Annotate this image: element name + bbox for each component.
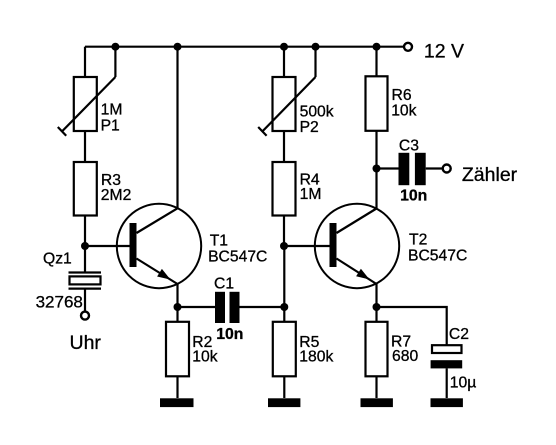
svg-text:C3: C3 bbox=[399, 137, 419, 154]
svg-text:C1: C1 bbox=[214, 276, 234, 293]
svg-text:R6: R6 bbox=[392, 87, 412, 104]
svg-text:12 V: 12 V bbox=[424, 41, 464, 63]
svg-text:Zähler: Zähler bbox=[462, 164, 518, 186]
svg-text:10n: 10n bbox=[216, 326, 243, 343]
svg-text:32768: 32768 bbox=[36, 293, 83, 312]
svg-text:Qz1: Qz1 bbox=[43, 250, 72, 267]
svg-text:680: 680 bbox=[392, 348, 418, 365]
svg-text:BC547C: BC547C bbox=[208, 249, 267, 266]
svg-text:C2: C2 bbox=[449, 326, 469, 343]
svg-text:1M: 1M bbox=[101, 101, 123, 118]
svg-text:10k: 10k bbox=[192, 348, 217, 365]
svg-text:1M: 1M bbox=[300, 186, 322, 203]
svg-text:BC547C: BC547C bbox=[408, 248, 467, 265]
svg-text:T1: T1 bbox=[210, 232, 228, 249]
svg-text:180k: 180k bbox=[299, 348, 333, 365]
svg-text:2M2: 2M2 bbox=[101, 187, 132, 204]
svg-text:P2: P2 bbox=[300, 119, 319, 136]
svg-text:T2: T2 bbox=[409, 231, 427, 248]
svg-text:P1: P1 bbox=[101, 118, 120, 135]
svg-text:Uhr: Uhr bbox=[70, 332, 102, 354]
svg-text:10µ: 10µ bbox=[450, 375, 477, 392]
svg-text:10n: 10n bbox=[400, 187, 427, 204]
svg-text:10k: 10k bbox=[391, 102, 416, 119]
